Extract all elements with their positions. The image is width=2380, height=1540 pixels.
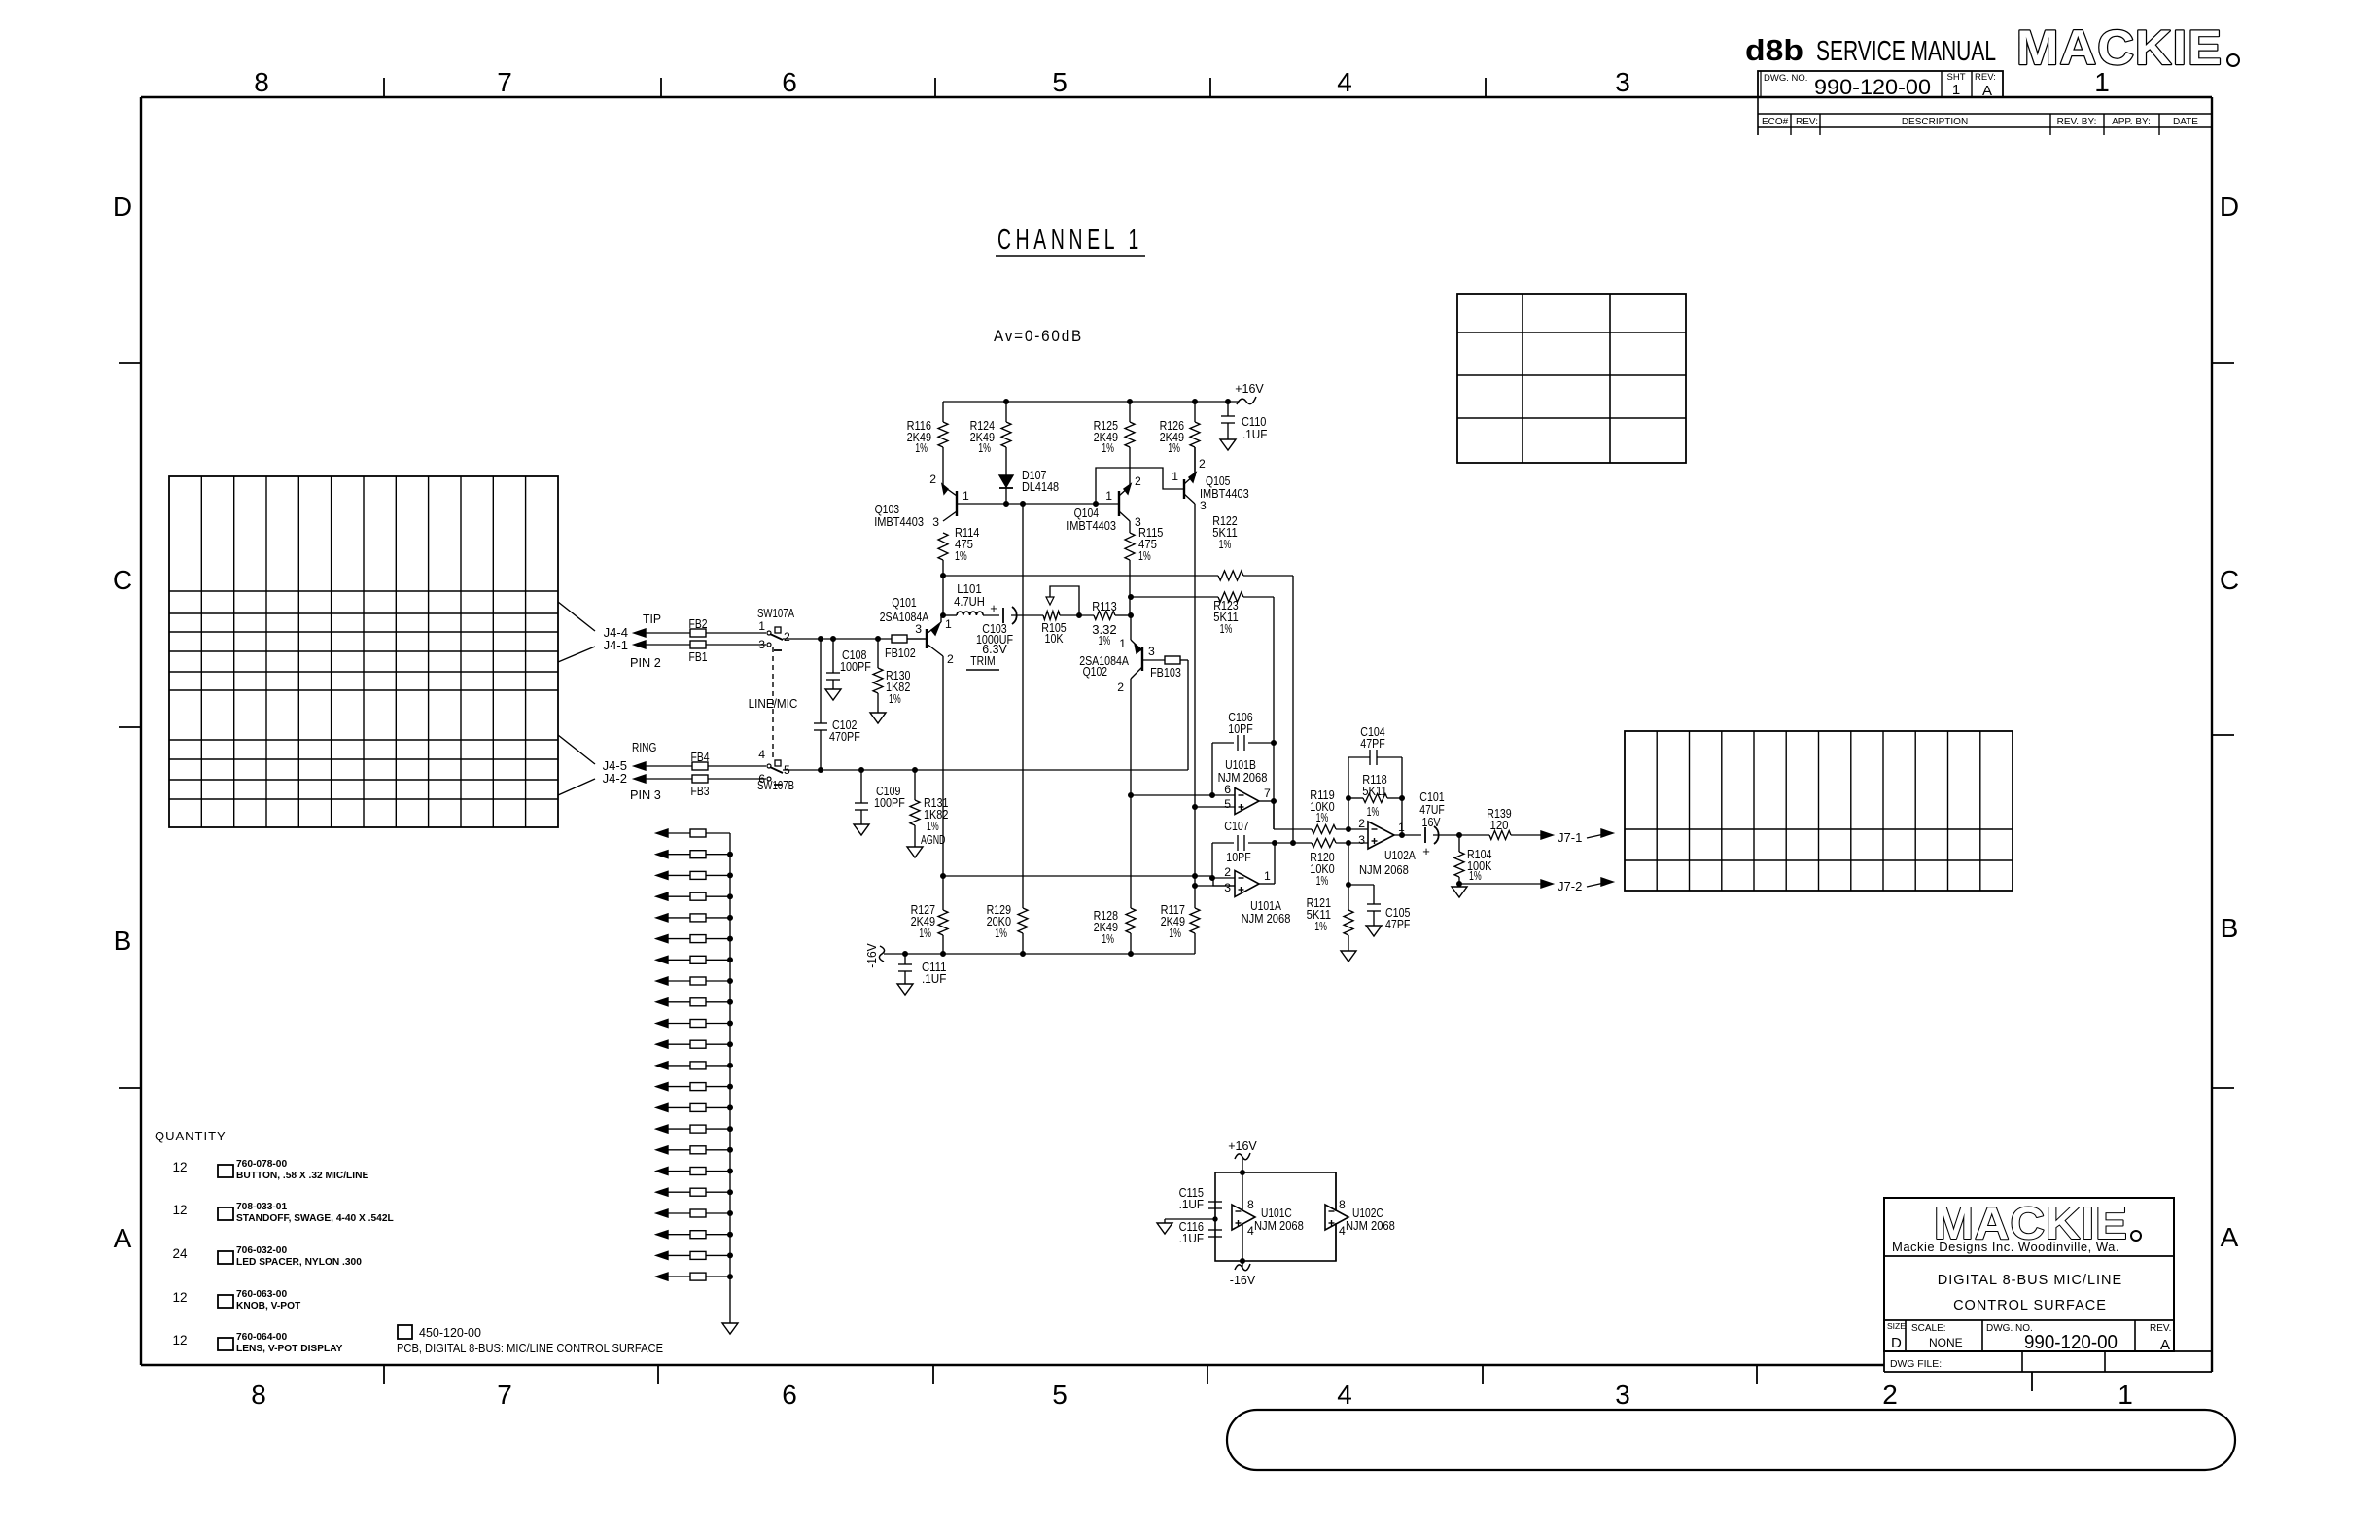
svg-text:Av=0-60dB: Av=0-60dB — [994, 327, 1083, 345]
svg-text:SCALE:: SCALE: — [1911, 1323, 1946, 1334]
connector table J4 (left grid) — [169, 476, 558, 827]
svg-text:8: 8 — [254, 67, 269, 97]
capacitor C111 — [898, 954, 946, 986]
wire Q102 collector down — [1129, 679, 1134, 908]
transistor Q104 — [1067, 474, 1141, 533]
svg-text:A: A — [114, 1223, 132, 1253]
ferrite bead FB2 — [689, 616, 708, 637]
wire U101A -in (2) — [1210, 876, 1236, 881]
svg-text:FB102: FB102 — [885, 646, 916, 660]
wire R122 drop — [1292, 576, 1294, 843]
svg-text:U102A: U102A — [1384, 848, 1416, 862]
svg-text:12: 12 — [172, 1203, 187, 1217]
connector table J7 (right grid) — [1625, 731, 2012, 891]
wire Q105 emitter — [1194, 447, 1196, 474]
svg-text:1%: 1% — [1102, 931, 1114, 946]
svg-text:4: 4 — [1339, 1224, 1346, 1238]
svg-text:5: 5 — [1052, 67, 1067, 97]
node J7-2 — [1459, 878, 1613, 893]
svg-text:3: 3 — [1148, 645, 1155, 658]
svg-text:3: 3 — [1224, 881, 1231, 894]
svg-text:47PF: 47PF — [1385, 917, 1410, 931]
wire gnd stub — [1165, 1217, 1217, 1223]
capacitor C101 (polarized) — [1419, 789, 1489, 858]
capacitor C110 — [1221, 402, 1267, 441]
svg-text:LED SPACER, NYLON .300: LED SPACER, NYLON .300 — [236, 1257, 362, 1268]
wire FB2 to SW107A pin1 — [706, 632, 766, 634]
op-amp U101B — [1218, 757, 1271, 815]
svg-text:120: 120 — [1490, 818, 1509, 832]
power block box — [1215, 1171, 1336, 1264]
svg-text:FB103: FB103 — [1150, 665, 1181, 680]
wire R120 row — [1275, 841, 1312, 846]
label DIGITAL 8-BUS MIC/LINE — [1938, 1273, 2122, 1288]
svg-text:8: 8 — [1339, 1198, 1346, 1211]
svg-text:1: 1 — [758, 619, 765, 633]
wire Q101 emitter up — [940, 615, 942, 622]
ground at bead column — [722, 1323, 738, 1334]
svg-text:CHANNEL 1: CHANNEL 1 — [997, 225, 1143, 256]
svg-text:J7-1: J7-1 — [1557, 830, 1582, 845]
svg-text:3: 3 — [915, 622, 922, 636]
wire bias feed vertical — [1022, 504, 1024, 908]
part 450-120-00 PCB — [397, 1325, 663, 1355]
ground at C110 — [1220, 439, 1236, 450]
svg-text:-16V: -16V — [864, 943, 879, 968]
svg-text:Q101: Q101 — [892, 595, 916, 610]
capacitor C102 — [814, 639, 860, 770]
svg-text:760-064-00: 760-064-00 — [236, 1332, 287, 1343]
svg-text:C: C — [113, 565, 132, 595]
svg-text:760-078-00: 760-078-00 — [236, 1159, 287, 1170]
label Av=0-60dB — [994, 327, 1083, 345]
svg-text:.1UF: .1UF — [1179, 1231, 1204, 1245]
svg-text:DESCRIPTION: DESCRIPTION — [1902, 117, 1968, 127]
part 708-033-01 — [172, 1202, 393, 1224]
title CHANNEL 1 — [996, 225, 1145, 256]
svg-text:100PF: 100PF — [840, 659, 871, 674]
ferrite bead column (22 lines) — [656, 829, 733, 1280]
svg-text:16V: 16V — [1422, 815, 1441, 829]
svg-text:8: 8 — [251, 1380, 266, 1410]
ground AGND at R131 — [907, 847, 923, 857]
svg-text:DIGITAL 8-BUS MIC/LINE: DIGITAL 8-BUS MIC/LINE — [1938, 1273, 2122, 1288]
svg-text:1%: 1% — [1099, 633, 1111, 647]
svg-text:BUTTON, .58 X .32 MIC/LINE: BUTTON, .58 X .32 MIC/LINE — [236, 1171, 368, 1181]
wire R123 drop — [1273, 597, 1275, 829]
resistor R122 — [1212, 513, 1293, 580]
wire Q104 emitter — [1129, 478, 1131, 486]
svg-text:1%: 1% — [1138, 548, 1151, 563]
label TRIM — [966, 653, 999, 670]
transistor Q102 — [1079, 637, 1165, 694]
svg-text:FB3: FB3 — [691, 784, 710, 798]
svg-text:1%: 1% — [919, 926, 931, 940]
label Mackie Designs — [1892, 1240, 2119, 1254]
svg-text:TRIM: TRIM — [970, 653, 995, 668]
node main row — [941, 613, 946, 618]
svg-text:B: B — [114, 926, 132, 956]
resistor R131 — [910, 770, 948, 847]
zone letters left — [113, 192, 132, 1253]
wire FB1 to SW107A pin3 — [706, 644, 766, 646]
svg-text:5: 5 — [1052, 1380, 1067, 1410]
svg-text:2: 2 — [1135, 474, 1141, 488]
svg-text:1%: 1% — [927, 819, 939, 833]
svg-text:10K: 10K — [1045, 631, 1064, 646]
capacitor C108 — [826, 639, 871, 689]
svg-text:5: 5 — [1224, 797, 1231, 811]
resistor R127 — [911, 876, 948, 954]
label PIN 2 — [630, 655, 661, 670]
svg-text:+16V: +16V — [1235, 382, 1264, 396]
svg-text:760-063-00: 760-063-00 — [236, 1289, 287, 1300]
svg-text:IMBT4403: IMBT4403 — [1067, 518, 1116, 533]
ground at R130 — [870, 713, 886, 723]
svg-text:6: 6 — [758, 772, 765, 786]
svg-text:FB4: FB4 — [691, 750, 710, 764]
label TIP — [643, 612, 661, 626]
zone numbers top — [254, 67, 2110, 97]
ferrite bead FB4 — [691, 750, 710, 770]
title block dwg-file row — [1884, 1351, 2212, 1372]
rev table columns — [1791, 114, 2159, 135]
svg-text:NONE: NONE — [1929, 1336, 1963, 1349]
wire RING rail — [783, 768, 1188, 773]
dwg-no labels — [1764, 72, 1996, 99]
svg-text:2: 2 — [1117, 681, 1124, 694]
border tick bottom — [384, 1365, 2032, 1391]
resistor R118 — [1347, 772, 1405, 829]
svg-text:RING: RING — [632, 740, 656, 754]
svg-text:47PF: 47PF — [1360, 736, 1384, 751]
dashed link LINE/MIC — [749, 647, 798, 759]
rev table header text — [1762, 117, 2198, 127]
resistor R130 — [873, 639, 910, 713]
svg-text:Mackie Designs Inc. Woodinvi: Mackie Designs Inc. Woodinville, Wa. — [1892, 1240, 2119, 1254]
svg-text:SIZE: SIZE — [1887, 1321, 1906, 1331]
svg-text:6: 6 — [782, 67, 797, 97]
resistor R123 — [1131, 592, 1274, 636]
svg-text:2: 2 — [929, 472, 936, 486]
op-amp U102C — [1325, 1172, 1395, 1261]
wire FB103 to ring riser — [1180, 659, 1188, 661]
node bias bus dots — [1004, 502, 1099, 507]
wire J4-4 arrow — [634, 629, 690, 637]
svg-text:D: D — [113, 192, 132, 222]
wire U102A feedback to output — [1400, 798, 1405, 838]
power +16V lower — [1228, 1139, 1257, 1172]
svg-text:1: 1 — [962, 489, 969, 503]
wire lower node rail — [941, 874, 1236, 887]
wire TIP rail — [783, 637, 926, 642]
svg-text:D: D — [1891, 1335, 1902, 1351]
svg-text:5K11: 5K11 — [1362, 784, 1386, 798]
capacitor C105 — [1348, 885, 1410, 931]
svg-text:NJM 2068: NJM 2068 — [1218, 770, 1268, 785]
svg-text:1%: 1% — [1102, 440, 1114, 455]
wire U101A +in (3) — [1193, 884, 1236, 889]
ground at C111 — [897, 984, 913, 995]
svg-text:CONTROL SURFACE: CONTROL SURFACE — [1953, 1298, 2107, 1313]
svg-text:2: 2 — [1224, 865, 1231, 879]
svg-text:708-033-01: 708-033-01 — [236, 1202, 287, 1212]
capacitor C104 — [1348, 724, 1402, 798]
resistor R121 — [1307, 843, 1353, 951]
svg-text:IMBT4403: IMBT4403 — [1200, 486, 1249, 501]
resistor R139 — [1487, 806, 1553, 840]
svg-text:+16V: +16V — [1228, 1139, 1257, 1153]
inductor L101 — [943, 581, 999, 615]
svg-text:2: 2 — [1358, 817, 1365, 830]
svg-text:DATE: DATE — [2173, 117, 2198, 127]
part 760-078-00 — [172, 1159, 368, 1181]
border tick top z8/7 — [384, 78, 661, 97]
wire bead column bus — [729, 833, 731, 1323]
ground at C115/C116 — [1157, 1223, 1172, 1234]
part 760-063-00 — [172, 1289, 301, 1312]
svg-text:B: B — [2221, 913, 2239, 943]
wire U101B +in (5) — [1195, 806, 1235, 808]
node J4-2 — [603, 771, 627, 786]
svg-text:3: 3 — [932, 515, 939, 529]
label QUANTITY — [155, 1129, 227, 1143]
zone numbers bottom — [251, 1380, 2133, 1410]
svg-text:12: 12 — [172, 1333, 187, 1347]
title block frame — [1884, 1198, 2174, 1351]
resistor R104 — [1454, 835, 1492, 887]
resistor R117 — [1161, 876, 1200, 954]
svg-text:6: 6 — [782, 1380, 797, 1410]
node J4-4 — [604, 625, 628, 640]
svg-text:100PF: 100PF — [874, 795, 905, 810]
svg-text:2: 2 — [1199, 457, 1206, 471]
svg-text:12: 12 — [172, 1160, 187, 1174]
rev table band — [1758, 97, 2212, 135]
resistor R120 — [1310, 839, 1368, 889]
op-amp U101A — [1224, 865, 1290, 926]
svg-text:SERVICE MANUAL: SERVICE MANUAL — [1816, 36, 1996, 67]
svg-text:1: 1 — [1172, 470, 1178, 483]
label RING — [632, 740, 656, 754]
transistor Q105 — [1096, 457, 1249, 512]
svg-text:REV.: REV. — [2150, 1323, 2171, 1334]
svg-text:990-120-00: 990-120-00 — [1814, 75, 1931, 99]
svg-text:.1UF: .1UF — [922, 971, 946, 986]
svg-text:1: 1 — [1105, 489, 1112, 503]
border frame — [141, 97, 2212, 1372]
svg-text:2: 2 — [947, 652, 954, 666]
svg-text:1: 1 — [1119, 637, 1126, 650]
pointer lines from left grid — [558, 602, 595, 795]
svg-text:NJM 2068: NJM 2068 — [1359, 862, 1409, 877]
svg-text:A: A — [1982, 83, 1992, 99]
wire Q101 collector down — [942, 656, 944, 876]
wire J4-2 arrow — [634, 775, 692, 783]
svg-text:IMBT4403: IMBT4403 — [874, 514, 924, 529]
resistor R113 — [1092, 599, 1133, 647]
wire RING rail riser to FB103 — [1187, 660, 1189, 770]
svg-text:7: 7 — [497, 1380, 512, 1410]
svg-text:REV:: REV: — [1796, 117, 1818, 127]
svg-text:J7-2: J7-2 — [1557, 879, 1582, 893]
svg-text:C107: C107 — [1224, 819, 1248, 833]
svg-text:1%: 1% — [1469, 868, 1482, 883]
svg-text:STANDOFF, SWAGE, 4-40 X .542L: STANDOFF, SWAGE, 4-40 X .542L — [236, 1213, 394, 1224]
resistor R124 — [970, 402, 1011, 472]
svg-text:MACKIE: MACKIE — [2016, 20, 2222, 75]
svg-text:4: 4 — [758, 748, 765, 761]
svg-text:d8b: d8b — [1745, 33, 1803, 67]
part 760-064-00 — [172, 1332, 342, 1354]
title block size row — [1887, 1320, 2171, 1353]
svg-text:R113: R113 — [1092, 599, 1116, 613]
svg-text:1: 1 — [1952, 82, 1960, 98]
bottom rounded bar — [1227, 1410, 2235, 1470]
ground at C109 — [854, 824, 869, 835]
capacitor C107 — [1212, 819, 1277, 878]
wire emitter net vertical — [1129, 595, 1134, 641]
svg-text:PCB, DIGITAL 8-BUS: MIC/LINE C: PCB, DIGITAL 8-BUS: MIC/LINE CONTROL SUR… — [397, 1342, 663, 1355]
resistor R115 — [1125, 525, 1163, 597]
svg-text:NJM 2068: NJM 2068 — [1254, 1218, 1304, 1233]
wire U101B -in (6) — [1131, 793, 1235, 798]
logo MACKIE top — [2016, 20, 2239, 75]
svg-text:24: 24 — [172, 1246, 188, 1261]
svg-text:4: 4 — [1247, 1224, 1254, 1238]
svg-text:PIN 3: PIN 3 — [630, 787, 661, 802]
svg-text:10PF: 10PF — [1228, 721, 1252, 736]
svg-text:REV. BY:: REV. BY: — [2057, 117, 2097, 127]
svg-text:1%: 1% — [889, 691, 901, 706]
dwg-no box — [1758, 71, 2003, 97]
svg-text:.1UF: .1UF — [1242, 427, 1267, 441]
resistor R116 — [907, 402, 948, 486]
zone letters right — [2220, 192, 2239, 1252]
resistor R114 — [938, 525, 979, 575]
svg-text:Q102: Q102 — [1083, 664, 1107, 679]
power -16V rail — [864, 943, 1195, 968]
resistor R126 — [1160, 402, 1200, 476]
power +16V top — [1235, 382, 1264, 404]
svg-text:FB2: FB2 — [689, 616, 708, 631]
wire J4-1 arrow — [634, 641, 690, 648]
ferrite bead FB1 — [689, 641, 708, 664]
border tick top z4/3 — [1485, 78, 1487, 97]
svg-text:APP. BY:: APP. BY: — [2112, 117, 2151, 127]
svg-text:1: 1 — [1264, 869, 1271, 883]
svg-text:10PF: 10PF — [1226, 850, 1250, 864]
capacitor C116 — [1179, 1219, 1222, 1245]
svg-text:1%: 1% — [1219, 537, 1232, 551]
ground at C108 — [825, 689, 841, 700]
svg-text:DL4148: DL4148 — [1022, 479, 1059, 494]
svg-text:1%: 1% — [1220, 621, 1233, 636]
svg-text:SW107A: SW107A — [757, 606, 794, 620]
wire FB3 to SW107B pin6 — [708, 778, 766, 780]
svg-text:1: 1 — [2117, 1380, 2133, 1410]
svg-text:NJM 2068: NJM 2068 — [1346, 1218, 1395, 1233]
trimpot R105 — [1041, 586, 1079, 646]
svg-text:706-032-00: 706-032-00 — [236, 1245, 287, 1256]
svg-text:2: 2 — [1882, 1380, 1898, 1410]
border tick right — [2212, 363, 2234, 1088]
svg-text:3: 3 — [1615, 67, 1630, 97]
node J4-5 — [603, 758, 627, 773]
svg-text:12: 12 — [172, 1290, 187, 1305]
svg-text:DWG. NO.: DWG. NO. — [1764, 73, 1807, 84]
resistor R129 — [987, 902, 1028, 954]
power -16V lower — [1230, 1261, 1256, 1287]
ground at R121 — [1341, 951, 1356, 962]
svg-text:KNOB, V-POT: KNOB, V-POT — [236, 1301, 301, 1312]
svg-text:1%: 1% — [978, 440, 991, 455]
label AGND — [921, 832, 945, 847]
svg-text:4: 4 — [1337, 1380, 1352, 1410]
svg-text:1: 1 — [945, 617, 952, 631]
node J4-1 — [604, 638, 628, 652]
svg-text:FB1: FB1 — [689, 649, 708, 664]
logo MACKIE title block — [1934, 1198, 2141, 1248]
svg-text:470PF: 470PF — [829, 729, 860, 744]
svg-text:3: 3 — [1615, 1380, 1630, 1410]
border tick top z6/5 — [935, 78, 1210, 97]
svg-text:J4-2: J4-2 — [603, 771, 627, 786]
svg-text:LENS, V-POT DISPLAY: LENS, V-POT DISPLAY — [236, 1344, 343, 1354]
svg-text:REV:: REV: — [1975, 72, 1996, 83]
svg-text:LINE/MIC: LINE/MIC — [749, 696, 798, 711]
svg-text:A: A — [2221, 1222, 2239, 1252]
capacitor C109 — [855, 770, 905, 824]
wire Q105 collector long — [1193, 504, 1198, 879]
svg-text:7: 7 — [497, 67, 512, 97]
wire J4-5 arrow — [634, 762, 692, 770]
label CONTROL SURFACE — [1953, 1298, 2107, 1313]
svg-text:PIN 2: PIN 2 — [630, 655, 661, 670]
svg-text:-16V: -16V — [1230, 1274, 1256, 1287]
op-amp U102A — [1358, 817, 1416, 877]
svg-text:1%: 1% — [1316, 873, 1329, 888]
ground at C105 — [1366, 926, 1382, 936]
wire U101B output — [1259, 799, 1312, 830]
svg-text:C: C — [2220, 565, 2239, 595]
wire U101A output — [1259, 843, 1275, 884]
capacitor C106 — [1212, 710, 1277, 795]
part 706-032-00 — [172, 1245, 362, 1268]
wire row to R122 — [941, 574, 1219, 578]
svg-text:7: 7 — [1264, 787, 1271, 800]
node R105/R113 — [1060, 613, 1094, 618]
wire R114-L101 node — [942, 576, 944, 615]
svg-text:DWG FILE:: DWG FILE: — [1890, 1359, 1942, 1370]
svg-text:ECO#: ECO# — [1762, 117, 1789, 127]
svg-text:+: + — [1422, 844, 1430, 858]
ground at R104 — [1452, 884, 1467, 897]
svg-text:3: 3 — [1200, 499, 1207, 512]
svg-text:2: 2 — [784, 630, 790, 644]
ferrite bead FB3 — [691, 775, 710, 798]
svg-text:1%: 1% — [1168, 440, 1180, 455]
svg-text:1%: 1% — [995, 926, 1007, 940]
svg-text:8: 8 — [1247, 1198, 1254, 1211]
svg-text:NJM 2068: NJM 2068 — [1242, 911, 1291, 926]
svg-text:3: 3 — [1358, 833, 1365, 847]
ferrite bead FB103 — [1150, 656, 1181, 680]
resistor R119 — [1310, 787, 1368, 834]
svg-text:3: 3 — [758, 638, 765, 651]
capacitor C115 — [1179, 1185, 1222, 1211]
transistor Q101 — [880, 595, 954, 666]
